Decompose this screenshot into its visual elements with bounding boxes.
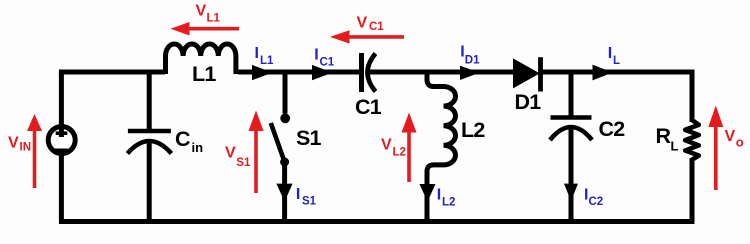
wire: top rail D1 to right corner bbox=[540, 72, 692, 122]
arrow V_O bbox=[714, 124, 718, 190]
svg-text:L: L bbox=[613, 55, 620, 67]
current arrow I_S1 bbox=[276, 184, 292, 202]
svg-text:C1: C1 bbox=[320, 57, 335, 69]
capacitor C1 straight plate bbox=[359, 53, 364, 92]
inductor L2 bbox=[427, 72, 444, 87]
svg-text:L2: L2 bbox=[442, 197, 455, 209]
capacitor C2 stem top bbox=[569, 70, 574, 116]
wire: switch stem top bbox=[283, 72, 288, 114]
wire: left vertical top (rail corner to source +) bbox=[61, 72, 165, 137]
capacitor C2 straight plate bbox=[551, 115, 592, 120]
current arrow I_C2 bbox=[564, 184, 578, 201]
switch S1 bottom contact bbox=[280, 158, 289, 167]
svg-text:C2: C2 bbox=[599, 117, 626, 141]
svg-text:L2: L2 bbox=[393, 147, 406, 159]
dc source minus mark bbox=[55, 149, 68, 154]
svg-text:V: V bbox=[8, 135, 19, 152]
diode D1 cathode bar bbox=[538, 57, 543, 91]
svg-text:C2: C2 bbox=[589, 196, 604, 208]
svg-text:I: I bbox=[437, 187, 441, 204]
capacitor Cin stem top bbox=[147, 70, 152, 129]
wire: switch stem bottom bbox=[282, 164, 287, 222]
svg-text:S1: S1 bbox=[296, 126, 322, 150]
wire: top rail L1 to C1 bbox=[238, 70, 361, 75]
svg-text:V: V bbox=[381, 137, 392, 154]
svg-text:in: in bbox=[192, 140, 204, 155]
arrow V_C1 bbox=[347, 35, 404, 39]
capacitor C1 curved plate bbox=[368, 54, 376, 92]
svg-text:L1: L1 bbox=[207, 13, 221, 25]
arrow V_IN bbox=[33, 128, 37, 188]
svg-text:V: V bbox=[357, 15, 368, 32]
svg-text:L: L bbox=[671, 139, 679, 154]
current arrow I_L1 bbox=[252, 65, 273, 80]
svg-text:D1: D1 bbox=[465, 54, 480, 66]
svg-text:V: V bbox=[725, 128, 736, 145]
svg-text:C: C bbox=[175, 127, 190, 151]
svg-text:L2: L2 bbox=[461, 118, 485, 142]
svg-text:D1: D1 bbox=[515, 90, 542, 114]
svg-text:o: o bbox=[736, 135, 744, 150]
svg-text:R: R bbox=[656, 124, 672, 148]
dc source V_IN circle bbox=[48, 127, 75, 154]
svg-text:S1: S1 bbox=[302, 196, 317, 208]
current arrow I_L2 bbox=[420, 184, 436, 202]
svg-text:V: V bbox=[196, 3, 207, 20]
arrow V_L2 bbox=[407, 130, 411, 182]
svg-text:I: I bbox=[296, 186, 300, 203]
svg-text:S1: S1 bbox=[236, 157, 251, 169]
arrow V_S1 bbox=[254, 128, 258, 193]
svg-text:L1: L1 bbox=[192, 62, 216, 86]
current arrow I_D1 bbox=[460, 66, 480, 80]
svg-text:V: V bbox=[225, 145, 236, 162]
svg-text:L1: L1 bbox=[260, 55, 274, 67]
current arrow I_C1 bbox=[312, 65, 333, 80]
wire: left vertical bottom + bottom rail + right vertical bottom bbox=[61, 155, 692, 222]
svg-text:I: I bbox=[314, 47, 318, 64]
resistor RL zigzag bbox=[685, 120, 699, 160]
current arrow I_L bbox=[593, 65, 613, 81]
switch S1 top contact bbox=[280, 113, 290, 123]
dc source plus mark bbox=[56, 131, 68, 135]
capacitor Cin stem bottom bbox=[147, 139, 152, 222]
svg-text:C1: C1 bbox=[369, 21, 384, 33]
arrow V_L1 bbox=[187, 27, 239, 31]
wire: top rail C1 to D1 bbox=[370, 70, 513, 75]
svg-text:IN: IN bbox=[20, 142, 32, 154]
capacitor Cin straight plate bbox=[128, 129, 171, 134]
capacitor C2 curved plate bbox=[550, 127, 592, 140]
inductor L1 bbox=[166, 56, 236, 74]
capacitor Cin curved plate bbox=[127, 141, 171, 154]
svg-text:C1: C1 bbox=[355, 95, 382, 119]
svg-text:I: I bbox=[608, 45, 612, 62]
switch S1 blade bbox=[271, 123, 285, 162]
svg-text:I: I bbox=[255, 45, 259, 62]
capacitor C2 stem bottom bbox=[569, 126, 574, 222]
diode D1 triangle bbox=[513, 58, 540, 88]
